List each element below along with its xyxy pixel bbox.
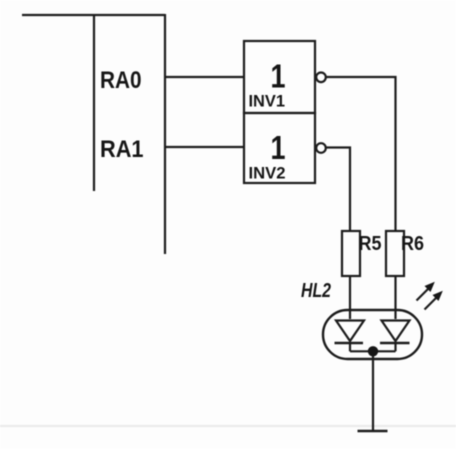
INV1 output bubble (316, 73, 326, 83)
LED HL2 stadium outline (323, 310, 422, 359)
wire: MCU top horizontal (22, 14, 165, 16)
light arrow 1 head (425, 282, 435, 292)
wire: MCU left vertical (93, 14, 95, 191)
wire: INV1 output to R6 (326, 77, 396, 231)
svg-text:RA1: RA1 (100, 136, 144, 163)
light arrow 2 (425, 297, 438, 310)
wire: INV2 output to R5 (326, 148, 350, 232)
faint scan artifact line bottom (0, 425, 456, 427)
diode 1 (left) triangle (336, 321, 364, 342)
diode 1 cathode bar (335, 342, 364, 344)
light arrow 1 (417, 288, 430, 301)
wire: LED common to ground (372, 352, 374, 431)
svg-text:1: 1 (271, 129, 286, 166)
svg-text:RA0: RA0 (100, 67, 142, 94)
svg-text:1: 1 (271, 58, 286, 95)
light arrow 2 head (433, 291, 443, 301)
svg-text:R5: R5 (359, 233, 382, 255)
wire: cathode 2 down (394, 343, 396, 351)
wire: R5 bottom to LED (349, 276, 351, 319)
svg-text:INV1: INV1 (249, 92, 286, 111)
svg-text:INV2: INV2 (249, 164, 286, 183)
wire: RA0 to INV1 input (165, 76, 244, 78)
resistor R5 body (342, 231, 360, 276)
svg-text:HL2: HL2 (301, 280, 331, 302)
wire: RA1 to INV2 input (165, 146, 244, 148)
wire: common cathode bus (350, 350, 396, 352)
INV2 output bubble (316, 143, 326, 153)
junction dot (368, 346, 378, 356)
svg-text:R6: R6 (401, 233, 424, 255)
diode 2 (right) triangle (382, 321, 410, 342)
resistor R6 body (386, 231, 404, 276)
wire: MCU right vertical (164, 14, 166, 254)
inverter INV2 box (244, 113, 315, 183)
ground symbol (358, 430, 388, 433)
inverter INV1 box (244, 41, 315, 113)
wire: cathode 1 down (349, 343, 351, 351)
wire: R6 bottom to LED (394, 276, 396, 319)
diode 2 cathode bar (380, 342, 410, 344)
